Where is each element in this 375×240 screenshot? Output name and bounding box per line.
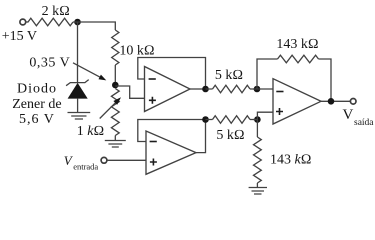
op-amp U3 — [273, 79, 321, 124]
wire U2 feedback — [138, 120, 206, 142]
wire R7 to ground — [256, 183, 258, 188]
ground (zener) — [68, 113, 91, 120]
wire node B to op-amp U1 + input — [115, 86, 144, 98]
arrow pointer 0,35 V — [73, 63, 102, 78]
svg-text:2 kΩ: 2 kΩ — [42, 4, 70, 19]
resistor R2 10 kΩ — [112, 30, 119, 65]
wire U1 output to node C — [190, 88, 206, 90]
svg-text:10 kΩ: 10 kΩ — [119, 44, 154, 59]
svg-text:143 kΩ: 143 kΩ — [276, 37, 318, 52]
zener diode D1 (anode triangle) — [68, 83, 88, 99]
node G output junction — [328, 98, 335, 105]
wire D up to feedback resistor — [257, 59, 278, 89]
svg-text:Diodo: Diodo — [17, 82, 57, 97]
rheostat R3 1 kΩ — [111, 89, 119, 136]
svg-text:Zener de: Zener de — [12, 97, 61, 112]
wire A down to zener — [77, 22, 79, 83]
node B junction — [112, 82, 119, 89]
svg-text:V: V — [343, 107, 354, 123]
rheostat R3 arrow — [100, 102, 116, 118]
wire R6 leads — [206, 119, 258, 121]
wire D to U3 inverting input — [253, 88, 273, 90]
arrowhead rheostat R3 — [113, 97, 121, 105]
wire R4 leads — [206, 88, 258, 90]
wire R2 bottom to node B — [114, 65, 116, 85]
node E junction — [202, 116, 209, 123]
svg-text:1 kΩ: 1 kΩ — [77, 124, 104, 139]
resistor R4 5 kΩ — [213, 85, 251, 93]
svg-text:5 kΩ: 5 kΩ — [216, 128, 244, 143]
svg-text:+15 V: +15 V — [2, 29, 37, 44]
wire U2 output to feedback — [196, 120, 206, 153]
U2 non-inverting input mark (+) — [150, 159, 157, 166]
U1 inverting input mark (-) — [149, 78, 156, 80]
wire U3 output to terminal — [321, 100, 350, 102]
wire F to U3 non-inverting input — [253, 112, 273, 119]
node F junction — [254, 116, 261, 123]
wire F down to R7 — [256, 120, 258, 138]
terminal V saída — [350, 99, 356, 105]
resistor R6 5 kΩ — [213, 116, 251, 124]
svg-text:saída: saída — [354, 118, 374, 128]
resistor R5 143 kΩ (feedback) — [278, 55, 319, 63]
ground (R3) — [105, 141, 126, 148]
U2 inverting input mark (-) — [150, 141, 157, 143]
svg-text:5,6 V: 5,6 V — [19, 112, 55, 127]
svg-text:5 kΩ: 5 kΩ — [215, 68, 243, 83]
ground (R7) — [249, 188, 267, 195]
wire R5 to U3 output — [319, 59, 332, 101]
op-amp U1 — [145, 67, 191, 112]
wire A to top of R2 — [73, 22, 115, 30]
U3 non-inverting input mark (+) — [276, 108, 283, 115]
svg-text:0,35 V: 0,35 V — [29, 56, 70, 71]
wire U1 feedback — [138, 58, 206, 90]
U3 inverting input mark (-) — [276, 91, 283, 93]
terminal V entrada — [101, 157, 107, 163]
svg-text:entrada: entrada — [73, 162, 98, 172]
node C junction — [202, 86, 209, 93]
op-amp U2 — [146, 131, 196, 174]
wire zener to ground — [77, 99, 79, 113]
terminal +15 V — [20, 19, 26, 25]
node D junction — [254, 86, 261, 93]
wire R3 to ground — [114, 136, 116, 141]
resistor R1 2 kΩ — [28, 18, 73, 26]
resistor R7 143 kΩ — [254, 137, 262, 183]
wire terminal to R1 — [26, 21, 29, 23]
zener diode D1 (cathode bar) — [66, 80, 89, 86]
arrowhead 0,35 V pointer — [99, 75, 107, 81]
U1 non-inverting input mark (+) — [149, 97, 156, 104]
svg-text:143 kΩ: 143 kΩ — [270, 153, 311, 168]
wire V entrada to U2 + input — [107, 159, 146, 161]
node A junction — [74, 19, 81, 26]
